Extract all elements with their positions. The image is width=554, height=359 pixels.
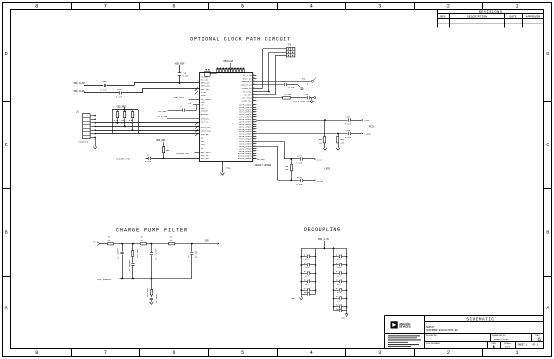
svg-text:6: 6 — [253, 87, 254, 89]
svg-text:5: 5 — [241, 350, 244, 356]
svg-text:0.1UF: 0.1UF — [345, 123, 352, 126]
svg-text:AD9577/PCBZ: AD9577/PCBZ — [494, 338, 509, 341]
svg-text:0.1UF: 0.1UF — [336, 270, 343, 273]
svg-text:BYPASS: BYPASS — [201, 113, 209, 116]
svg-text:L1 FER: L1 FER — [284, 93, 292, 96]
svg-text:C2 1000PF: C2 1000PF — [128, 259, 131, 271]
svg-text:6: 6 — [253, 80, 254, 82]
svg-text:CHARGE PUMP FILTER: CHARGE PUMP FILTER — [116, 228, 188, 234]
svg-text:B: B — [546, 230, 549, 236]
svg-text:0.1UF: 0.1UF — [336, 279, 343, 282]
svg-text:0.1UF: 0.1UF — [336, 304, 343, 307]
svg-text:CLK1: CLK1 — [317, 158, 323, 161]
svg-text:APPROVED: APPROVED — [526, 16, 541, 19]
svg-text:C1 1000PF: C1 1000PF — [117, 247, 120, 259]
svg-text:C106: C106 — [346, 129, 352, 132]
svg-text:NONE: NONE — [505, 345, 511, 348]
svg-text:D: D — [5, 51, 8, 57]
svg-text:PDB_SYNC: PDB_SYNC — [174, 96, 185, 99]
svg-text:C7 0.1UF: C7 0.1UF — [158, 115, 168, 118]
svg-text:DECOUPLING: DECOUPLING — [304, 227, 341, 233]
svg-text:CUSTOMER EVALUATION BD.: CUSTOMER EVALUATION BD. — [426, 329, 459, 332]
svg-text:XTALREF_SEL: XTALREF_SEL — [176, 152, 190, 155]
svg-text:6: 6 — [253, 74, 254, 76]
svg-text:OPTIONAL CLOCK PATH CIRCUIT: OPTIONAL CLOCK PATH CIRCUIT — [190, 36, 290, 42]
svg-text:JP3 0R0: JP3 0R0 — [146, 288, 149, 297]
svg-text:LVDS: LVDS — [325, 168, 331, 171]
svg-text:6: 6 — [253, 96, 254, 98]
svg-text:B: B — [493, 346, 495, 350]
svg-text:4: 4 — [310, 4, 313, 10]
svg-text:SCLK_SCL: SCLK_SCL — [201, 126, 212, 129]
svg-text:0.1UF: 0.1UF — [336, 253, 343, 256]
svg-text:7: 7 — [104, 4, 107, 10]
svg-text:DEVICES: DEVICES — [399, 325, 411, 329]
svg-text:VDD_3.3V: VDD_3.3V — [318, 238, 330, 241]
svg-text:C105: C105 — [346, 115, 352, 118]
svg-text:SHEET 1: SHEET 1 — [518, 344, 529, 347]
svg-text:SMA_CLKN: SMA_CLKN — [74, 90, 86, 93]
svg-text:0.1UF: 0.1UF — [289, 86, 296, 89]
svg-text:VDD_REF: VDD_REF — [117, 106, 127, 109]
svg-text:RPULLUP: RPULLUP — [224, 60, 234, 63]
svg-text:C: C — [546, 142, 549, 148]
svg-text:SIZE: SIZE — [491, 343, 496, 345]
svg-text:3: 3 — [378, 350, 381, 356]
svg-text:0.1UF: 0.1UF — [116, 95, 123, 98]
svg-text:0.1UF: 0.1UF — [336, 307, 343, 310]
svg-text:3: 3 — [378, 4, 381, 10]
svg-text:2: 2 — [447, 350, 450, 356]
svg-text:CLKB_VCX: CLKB_VCX — [242, 100, 253, 103]
svg-text:DRAWING NO.: DRAWING NO. — [492, 334, 507, 337]
svg-text:C6 10UF: C6 10UF — [155, 294, 158, 303]
svg-text:AD9517-4PCBZ: AD9517-4PCBZ — [255, 164, 272, 167]
svg-text:8: 8 — [35, 4, 38, 10]
svg-text:6: 6 — [253, 100, 254, 102]
svg-text:C: C — [5, 142, 8, 148]
svg-text:6: 6 — [253, 83, 254, 85]
svg-text:0.1UF: 0.1UF — [101, 89, 108, 92]
svg-text:CLK0: CLK0 — [365, 119, 371, 122]
svg-text:STATUS_LD: STATUS_LD — [240, 83, 252, 86]
svg-text:C108: C108 — [297, 176, 303, 179]
svg-text:DATE: DATE — [509, 16, 516, 19]
svg-text:OSC_OUT: OSC_OUT — [201, 157, 210, 160]
svg-text:C101: C101 — [117, 88, 123, 91]
svg-text:OF 2: OF 2 — [533, 344, 539, 347]
svg-text:-: - — [427, 338, 428, 341]
svg-text:1: 1 — [515, 4, 518, 10]
svg-text:REVISIONS: REVISIONS — [479, 11, 502, 15]
svg-text:2: 2 — [447, 4, 450, 10]
svg-text:0.1UF: 0.1UF — [183, 74, 190, 77]
svg-text:4: 4 — [310, 350, 313, 356]
svg-text:6: 6 — [253, 94, 254, 96]
svg-text:D: D — [546, 51, 549, 57]
svg-text:SYNC: SYNC — [201, 94, 207, 97]
svg-text:A: A — [546, 305, 549, 311]
svg-text:5: 5 — [241, 4, 244, 10]
svg-text:0.1UF: 0.1UF — [304, 270, 311, 273]
svg-text:0.1UF: 0.1UF — [304, 279, 311, 282]
svg-text:6: 6 — [253, 90, 254, 92]
svg-text:MODEL NO.: MODEL NO. — [426, 335, 438, 337]
svg-text:REV: REV — [440, 16, 446, 19]
svg-text:6: 6 — [172, 4, 175, 10]
svg-text:0.1UF: 0.1UF — [297, 183, 304, 186]
svg-text:-: - — [427, 346, 428, 349]
svg-text:0.1UF: 0.1UF — [336, 262, 343, 265]
svg-text:EPAD: EPAD — [226, 167, 232, 170]
svg-text:6: 6 — [253, 77, 254, 79]
svg-text:0.1UF: 0.1UF — [145, 160, 152, 163]
svg-text:C100: C100 — [102, 80, 108, 83]
svg-text:JP2 0R0: JP2 0R0 — [136, 249, 139, 258]
svg-text:PCCL: PCCL — [369, 126, 375, 129]
svg-text:FILE NUMBER: FILE NUMBER — [426, 343, 440, 345]
svg-text:TB1WHITE: TB1WHITE — [79, 141, 89, 144]
svg-text:C3 .022UF: C3 .022UF — [155, 248, 158, 260]
svg-text:DESCRIPTION: DESCRIPTION — [467, 16, 487, 19]
svg-text:7: 7 — [104, 350, 107, 356]
svg-text:EP/PAD: EP/PAD — [257, 158, 265, 161]
svg-text:8: 8 — [35, 350, 38, 356]
svg-text:XTAL_FERRITE: XTAL_FERRITE — [97, 278, 112, 281]
svg-text:0.1UF: 0.1UF — [297, 161, 304, 164]
svg-text:0.1UF: 0.1UF — [304, 291, 311, 294]
svg-text:R8 0R0: R8 0R0 — [195, 250, 198, 258]
svg-text:C107: C107 — [297, 154, 303, 157]
svg-text:VS_PLL: VS_PLL — [201, 121, 209, 124]
svg-text:0.1UF: 0.1UF — [304, 253, 311, 256]
svg-text:SMA_CLKP: SMA_CLKP — [74, 82, 86, 85]
svg-text:REV: REV — [535, 335, 540, 337]
svg-text:0.1UF: 0.1UF — [345, 136, 352, 139]
svg-text:6: 6 — [172, 350, 175, 356]
svg-text:VDD: VDD — [205, 240, 210, 243]
svg-text:A: A — [5, 305, 8, 311]
svg-text:CLK1B: CLK1B — [317, 180, 324, 183]
svg-text:0.1UF: 0.1UF — [304, 287, 311, 290]
svg-text:0.1UF: 0.1UF — [336, 295, 343, 298]
svg-text:VDD_REF: VDD_REF — [156, 139, 166, 142]
svg-text:VDD_REF: VDD_REF — [175, 62, 185, 65]
svg-text:OUT11_CMOSP: OUT11_CMOSP — [238, 157, 252, 160]
svg-text:0.1UF: 0.1UF — [304, 262, 311, 265]
svg-text:LX3.3 XTAL +3V3.3V: LX3.3 XTAL +3V3.3V — [293, 100, 315, 103]
svg-text:B: B — [5, 230, 8, 236]
svg-text:1: 1 — [515, 350, 518, 356]
svg-text:JP6 0R0: JP6 0R0 — [158, 110, 167, 113]
svg-text:XTALREF_CTRL: XTALREF_CTRL — [116, 157, 131, 160]
svg-text:0.1UF: 0.1UF — [336, 287, 343, 290]
svg-text:CLK0B: CLK0B — [365, 133, 372, 136]
